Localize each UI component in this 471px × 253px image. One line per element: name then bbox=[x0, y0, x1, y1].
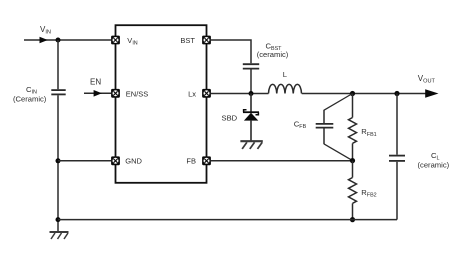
capacitor CIN bbox=[51, 90, 65, 94]
svg-text:(ceramic): (ceramic) bbox=[418, 161, 450, 170]
node GND rail junction bbox=[56, 158, 61, 163]
node CL top junction bbox=[394, 91, 399, 96]
node VIN input junction bbox=[56, 38, 61, 43]
wire SBD anode to ground bbox=[250, 121, 252, 141]
svg-text:SBD: SBD bbox=[222, 113, 238, 122]
svg-text:EN: EN bbox=[90, 78, 101, 87]
wire GND pin to rail bbox=[58, 160, 111, 162]
wire VIN input bbox=[24, 39, 111, 41]
svg-text:GND: GND bbox=[125, 157, 142, 166]
capacitor CFB bbox=[316, 94, 353, 161]
arrow VOUT bbox=[425, 89, 438, 98]
node output junction bbox=[350, 91, 355, 96]
pin Lx bbox=[188, 89, 211, 98]
svg-text:L: L bbox=[283, 70, 287, 79]
wire output rail bbox=[302, 93, 426, 95]
diode SBD schottky bbox=[243, 110, 259, 121]
pin GND bbox=[111, 156, 142, 165]
node FB junction bbox=[350, 158, 355, 163]
resistor RFB2 bbox=[349, 161, 357, 220]
ground left bbox=[50, 232, 69, 239]
wire FB bbox=[211, 160, 353, 162]
svg-text:(ceramic): (ceramic) bbox=[257, 50, 289, 59]
capacitor CL bbox=[389, 94, 405, 220]
svg-text:BST: BST bbox=[180, 36, 195, 45]
pin VIN bbox=[111, 36, 138, 47]
pin FB bbox=[186, 156, 210, 165]
arrow EN input bbox=[94, 90, 102, 97]
svg-text:EN/SS: EN/SS bbox=[126, 89, 149, 98]
node RFB2 bottom junction bbox=[350, 217, 355, 222]
node Lx bbox=[249, 91, 254, 96]
wire SBD cathode bbox=[250, 94, 252, 113]
svg-text:(Ceramic): (Ceramic) bbox=[13, 94, 47, 103]
wire bottom rail bbox=[58, 219, 397, 221]
wire CBST to Lx node bbox=[250, 70, 252, 94]
wire EN input bbox=[84, 92, 111, 94]
pin BST bbox=[180, 36, 210, 45]
arrow VIN input bbox=[40, 37, 48, 44]
svg-text:Lx: Lx bbox=[188, 89, 196, 98]
svg-text:FB: FB bbox=[186, 157, 196, 166]
wire left rail lower bbox=[57, 95, 59, 231]
wire BST to CBST bbox=[211, 40, 251, 63]
inductor L bbox=[269, 84, 302, 93]
wire Lx bbox=[211, 93, 269, 95]
IC U1 bbox=[116, 25, 207, 183]
wire left rail upper bbox=[57, 40, 59, 89]
resistor RFB1 bbox=[349, 94, 357, 161]
ground SBD bbox=[240, 141, 262, 149]
pin EN/SS bbox=[111, 89, 148, 98]
capacitor CBST bbox=[243, 64, 259, 68]
node bottom rail junction bbox=[56, 217, 61, 222]
